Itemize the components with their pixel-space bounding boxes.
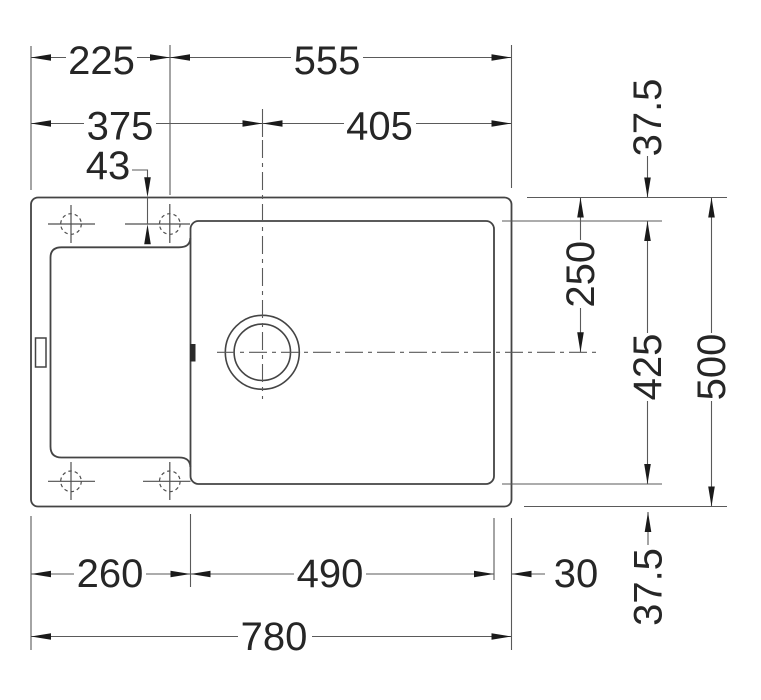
extension line right bottom [511, 518, 513, 650]
faucet hole bottom-left [48, 462, 95, 500]
arrow 30 left [512, 571, 532, 578]
arrow 405 left [263, 120, 283, 127]
svg-text:260: 260 [77, 552, 144, 596]
arrow 37.5 bottom up [645, 512, 652, 532]
svg-text:500: 500 [690, 334, 734, 401]
arrow 780 left [31, 633, 51, 640]
svg-text:225: 225 [68, 39, 135, 83]
extension line left (x=31 top) [30, 46, 32, 190]
label 225 [66, 44, 137, 76]
drainer ledge outline [51, 238, 191, 467]
dimension line 225 [31, 57, 170, 59]
arrow 555 right [492, 54, 512, 61]
arrow 250 down [577, 332, 584, 352]
vertical centerline through drain [262, 140, 264, 399]
arrow 405 right [492, 120, 512, 127]
extension bottom edge right [524, 506, 727, 508]
main bowl outline [191, 221, 495, 484]
overflow mark on bowl wall [190, 344, 196, 362]
label 375 [84, 110, 156, 142]
dimension 30 leader [512, 573, 546, 575]
arrow 490 left [191, 571, 211, 578]
arrow 425 down [644, 464, 651, 484]
dimension 250 [580, 198, 582, 353]
label 425 [630, 333, 664, 401]
arrow 425 up [644, 221, 651, 241]
extension top edge right [527, 197, 727, 199]
extension bowl top right [502, 220, 662, 222]
arrow 500 up [708, 198, 715, 218]
arrow 43 up [144, 224, 151, 244]
faucet hole top-left [48, 205, 95, 243]
label 490 [294, 560, 366, 591]
extension bowl bottom right [502, 483, 662, 485]
svg-text:250: 250 [559, 241, 603, 308]
label 250 [563, 240, 597, 308]
dimension line 490 [191, 573, 495, 575]
dimension 425 [647, 221, 649, 484]
arrow 500 down [708, 487, 715, 507]
dimension line 555 [170, 57, 512, 59]
label 405 [344, 110, 416, 142]
arrow 375 right [243, 120, 263, 127]
extension line left bottom [30, 516, 32, 650]
extension line right (x=511.5 top) [511, 45, 513, 188]
arrow 260 right [171, 571, 191, 578]
svg-text:780: 780 [241, 615, 308, 659]
dimension 37.5 top [647, 156, 649, 198]
drain inner circle [234, 324, 290, 380]
line 43 through [147, 198, 149, 225]
arrow 43 down [144, 177, 151, 197]
drain outer circle [225, 315, 299, 389]
svg-text:425: 425 [626, 334, 670, 401]
horizontal centerline through drain [217, 351, 598, 353]
label 500 [694, 333, 728, 401]
dimension line 405 [263, 123, 512, 125]
extension line bowl-left bottom [190, 514, 192, 587]
sink outer rim outline [31, 198, 512, 507]
arrow 375 left [31, 120, 51, 127]
dimension line 780 [31, 636, 512, 638]
dimension line 375 [31, 123, 263, 125]
tick at x=262.5 row2 [262, 109, 264, 137]
dimension 37.5 bottom [647, 512, 649, 545]
svg-text:375: 375 [87, 105, 154, 149]
arrow 225 right [150, 54, 170, 61]
svg-text:37.5: 37.5 [627, 548, 671, 626]
extension line bowl-right bottom [493, 518, 495, 580]
leader 43 [132, 170, 148, 178]
svg-text:490: 490 [297, 552, 364, 596]
svg-text:555: 555 [294, 39, 361, 83]
extension line x=170 top [169, 45, 171, 195]
label 555 [291, 44, 363, 76]
arrow 490 right [474, 571, 494, 578]
overflow slot on left rim [36, 338, 47, 367]
label 260 [74, 560, 146, 591]
svg-text:30: 30 [554, 552, 599, 596]
svg-text:43: 43 [86, 144, 131, 188]
faucet hole bottom-right [143, 462, 191, 500]
dimension line 260 [31, 573, 191, 575]
arrow 37.5 top down [644, 178, 651, 198]
faucet hole top-right [125, 204, 190, 243]
label 780 [238, 622, 312, 653]
svg-text:37.5: 37.5 [626, 79, 670, 157]
dimension 500 [711, 198, 713, 507]
arrow 260 left [31, 571, 51, 578]
arrow 225 left [31, 54, 51, 61]
arrow 780 right [492, 633, 512, 640]
arrow 250 up [577, 198, 584, 218]
arrow 555 left [170, 54, 190, 61]
svg-text:405: 405 [346, 105, 413, 149]
